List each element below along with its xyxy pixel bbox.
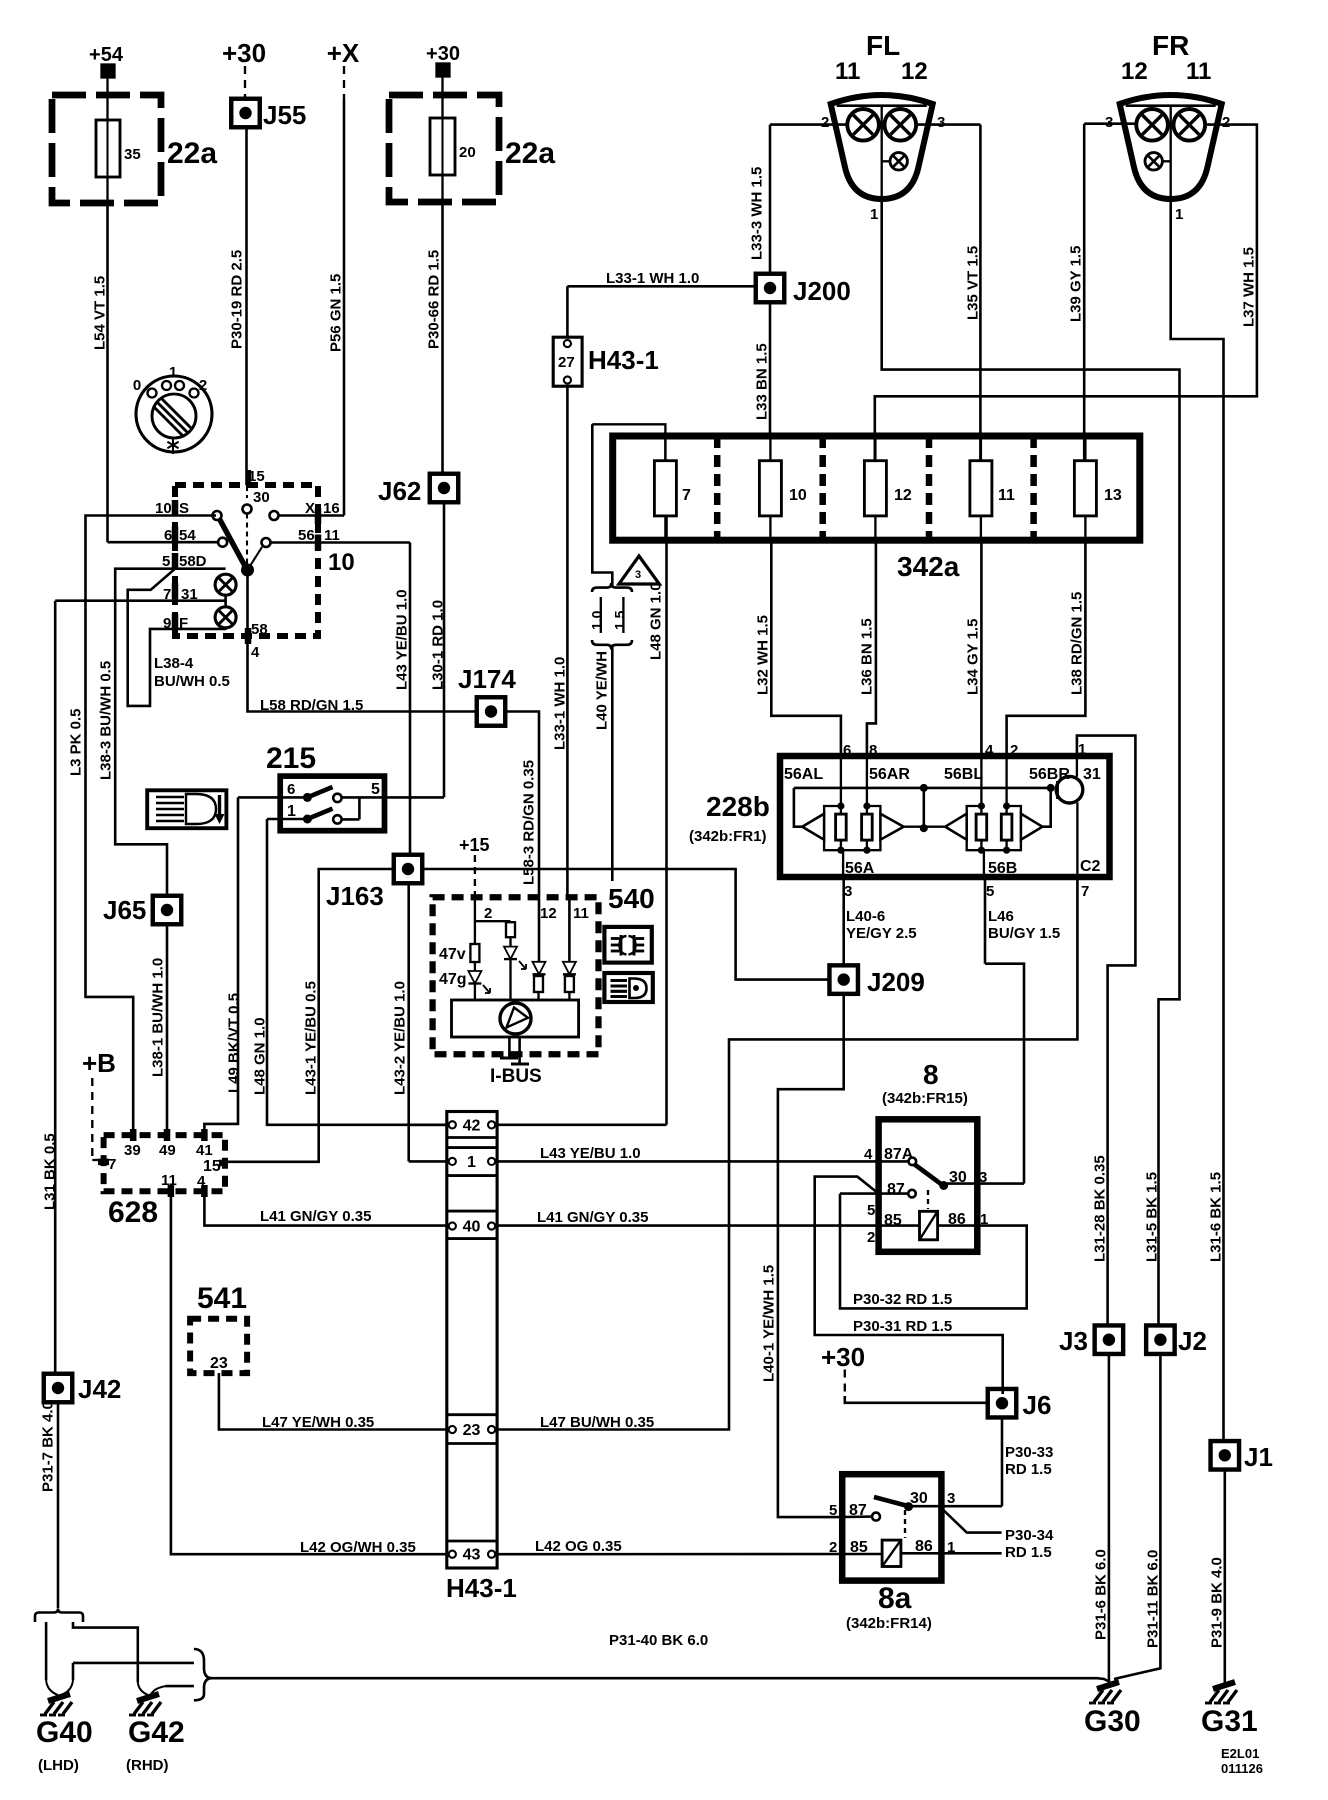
- svg-text:L34 GY 1.5: L34 GY 1.5: [965, 619, 982, 695]
- svg-text:10: 10: [789, 487, 807, 504]
- svg-text:J163: J163: [326, 881, 384, 911]
- svg-text:56AL: 56AL: [784, 766, 823, 783]
- svg-text:1: 1: [1078, 741, 1086, 758]
- svg-text:8a: 8a: [878, 1582, 912, 1615]
- svg-text:1: 1: [467, 1154, 476, 1171]
- svg-text:4: 4: [985, 742, 994, 759]
- svg-text:+B: +B: [82, 1048, 116, 1078]
- svg-text:56AR: 56AR: [869, 766, 910, 783]
- svg-text:8: 8: [923, 1059, 939, 1090]
- svg-text:42: 42: [463, 1117, 481, 1134]
- svg-text:7: 7: [682, 487, 691, 504]
- svg-text:P31-11 BK 6.0: P31-11 BK 6.0: [1145, 1550, 1162, 1648]
- svg-text:G31: G31: [1201, 1705, 1258, 1738]
- svg-text:YE/GY 2.5: YE/GY 2.5: [846, 925, 917, 942]
- svg-text:39: 39: [124, 1142, 141, 1159]
- svg-text:P30-32 RD 1.5: P30-32 RD 1.5: [853, 1291, 952, 1308]
- svg-text:J174: J174: [458, 664, 516, 694]
- svg-text:5: 5: [986, 883, 994, 900]
- svg-text:011126: 011126: [1221, 1761, 1263, 1776]
- svg-text:11: 11: [835, 58, 860, 85]
- svg-text:43: 43: [463, 1547, 481, 1564]
- svg-text:P30-66 RD 1.5: P30-66 RD 1.5: [426, 250, 443, 349]
- svg-text:L54 VT 1.5: L54 VT 1.5: [92, 276, 109, 350]
- svg-text:J6: J6: [1023, 1390, 1052, 1420]
- svg-text:30: 30: [253, 489, 270, 506]
- svg-text:628: 628: [108, 1196, 158, 1229]
- svg-text:L38-4: L38-4: [154, 655, 194, 672]
- svg-text:11: 11: [573, 905, 589, 922]
- svg-text:L43-2 YE/BU 1.0: L43-2 YE/BU 1.0: [392, 981, 409, 1095]
- svg-text:2: 2: [1222, 114, 1230, 131]
- svg-text:L37 WH 1.5: L37 WH 1.5: [1241, 247, 1258, 327]
- svg-text:31: 31: [1083, 766, 1101, 783]
- svg-text:BU/WH 0.5: BU/WH 0.5: [154, 673, 230, 690]
- svg-text:L33 BN 1.5: L33 BN 1.5: [754, 343, 771, 420]
- svg-text:15: 15: [203, 1158, 221, 1175]
- svg-text:11: 11: [1186, 58, 1211, 85]
- svg-text:J2: J2: [1178, 1326, 1207, 1356]
- svg-text:P30-34: P30-34: [1005, 1527, 1054, 1544]
- svg-text:1: 1: [1175, 206, 1183, 223]
- svg-text:J65: J65: [103, 895, 146, 925]
- svg-text:56BL: 56BL: [944, 766, 983, 783]
- svg-text:L40-6: L40-6: [846, 908, 885, 925]
- svg-text:J42: J42: [78, 1374, 121, 1404]
- svg-text:22a: 22a: [505, 137, 555, 170]
- svg-text:(LHD): (LHD): [38, 1757, 79, 1774]
- svg-text:5: 5: [371, 781, 380, 798]
- svg-text:87: 87: [887, 1181, 905, 1198]
- svg-text:2: 2: [199, 377, 207, 394]
- svg-text:1.5: 1.5: [612, 610, 628, 630]
- svg-text:J209: J209: [867, 967, 925, 997]
- svg-text:RD 1.5: RD 1.5: [1005, 1461, 1052, 1478]
- svg-text:12: 12: [1121, 58, 1148, 85]
- svg-text:L42 OG 0.35: L42 OG 0.35: [535, 1538, 622, 1555]
- svg-text:58: 58: [251, 621, 268, 638]
- svg-text:+15: +15: [459, 835, 490, 855]
- svg-text:12: 12: [540, 905, 557, 922]
- svg-text:2: 2: [1010, 742, 1018, 759]
- svg-text:L35 VT 1.5: L35 VT 1.5: [965, 246, 982, 320]
- svg-text:56BR: 56BR: [1029, 766, 1070, 783]
- svg-text:16: 16: [323, 500, 340, 517]
- svg-text:L33-1 WH 1.0: L33-1 WH 1.0: [606, 270, 699, 287]
- svg-text:56A: 56A: [845, 860, 875, 877]
- svg-text:L41 GN/GY 0.35: L41 GN/GY 0.35: [260, 1208, 371, 1225]
- svg-text:L3 PK 0.5: L3 PK 0.5: [68, 708, 85, 776]
- svg-text:+X: +X: [327, 38, 360, 68]
- svg-text:H43-1: H43-1: [446, 1573, 517, 1603]
- svg-text:12: 12: [894, 487, 912, 504]
- svg-text:215: 215: [266, 742, 316, 775]
- svg-text:(RHD): (RHD): [126, 1757, 169, 1774]
- svg-text:L33-1 WH 1.0: L33-1 WH 1.0: [552, 657, 569, 750]
- svg-text:6: 6: [287, 781, 295, 798]
- svg-text:L41 GN/GY 0.35: L41 GN/GY 0.35: [537, 1209, 648, 1226]
- svg-text:41: 41: [196, 1142, 213, 1159]
- svg-text:(342b:FR15): (342b:FR15): [882, 1090, 968, 1107]
- svg-text:+30: +30: [821, 1342, 865, 1372]
- svg-text:L40-1 YE/WH 1.5: L40-1 YE/WH 1.5: [761, 1265, 778, 1382]
- svg-text:L36 BN 1.5: L36 BN 1.5: [859, 618, 876, 695]
- svg-text:4: 4: [251, 644, 260, 661]
- svg-text:P31-6 BK 6.0: P31-6 BK 6.0: [1093, 1549, 1110, 1640]
- svg-text:I-BUS: I-BUS: [490, 1066, 542, 1087]
- svg-text:C2: C2: [1080, 858, 1101, 875]
- svg-text:G42: G42: [128, 1716, 185, 1749]
- svg-text:L38-1 BU/WH 1.0: L38-1 BU/WH 1.0: [150, 958, 167, 1077]
- svg-text:L58-3 RD/GN 0.35: L58-3 RD/GN 0.35: [521, 760, 538, 885]
- svg-text:H43-1: H43-1: [588, 345, 659, 375]
- svg-text:X: X: [305, 500, 315, 517]
- svg-text:P30-33: P30-33: [1005, 1444, 1053, 1461]
- svg-text:(342b:FR1): (342b:FR1): [689, 828, 767, 845]
- svg-text:G40: G40: [36, 1716, 93, 1749]
- svg-text:7: 7: [108, 1156, 116, 1173]
- svg-text:27: 27: [558, 354, 575, 371]
- svg-text:L58 RD/GN 1.5: L58 RD/GN 1.5: [260, 697, 363, 714]
- svg-text:56B: 56B: [988, 860, 1017, 877]
- svg-text:2: 2: [821, 114, 829, 131]
- svg-text:35: 35: [124, 146, 141, 163]
- svg-text:L38-3 BU/WH 0.5: L38-3 BU/WH 0.5: [98, 661, 115, 780]
- svg-text:L31-5 BK 1.5: L31-5 BK 1.5: [1144, 1172, 1161, 1262]
- svg-text:22a: 22a: [167, 137, 217, 170]
- svg-text:P30-31 RD 1.5: P30-31 RD 1.5: [853, 1318, 952, 1335]
- svg-text:J1: J1: [1244, 1442, 1273, 1472]
- svg-text:6: 6: [164, 527, 172, 544]
- svg-text:228b: 228b: [706, 791, 770, 822]
- svg-text:J55: J55: [263, 100, 306, 130]
- svg-text:3: 3: [947, 1490, 955, 1507]
- svg-text:BU/GY 1.5: BU/GY 1.5: [988, 925, 1060, 942]
- svg-text:54: 54: [179, 527, 196, 544]
- svg-text:30: 30: [910, 1490, 928, 1507]
- svg-text:L31 BK 0.5: L31 BK 0.5: [42, 1133, 59, 1210]
- svg-text:L33-3 WH 1.5: L33-3 WH 1.5: [749, 167, 766, 260]
- svg-text:10: 10: [328, 549, 355, 576]
- svg-text:5: 5: [867, 1202, 875, 1219]
- svg-text:RD 1.5: RD 1.5: [1005, 1544, 1052, 1561]
- svg-text:342a: 342a: [897, 551, 960, 582]
- svg-text:P56 GN 1.5: P56 GN 1.5: [328, 274, 345, 352]
- svg-text:12: 12: [901, 58, 928, 85]
- svg-text:540: 540: [608, 883, 655, 914]
- svg-text:23: 23: [463, 1422, 481, 1439]
- svg-text:3: 3: [937, 114, 945, 131]
- svg-text:541: 541: [197, 1282, 247, 1315]
- svg-text:L43-1 YE/BU 0.5: L43-1 YE/BU 0.5: [303, 981, 320, 1095]
- svg-text:0: 0: [133, 377, 141, 394]
- svg-text:1.0: 1.0: [589, 610, 605, 630]
- svg-text:8: 8: [869, 742, 877, 759]
- svg-text:FL: FL: [866, 30, 900, 61]
- svg-text:L40 YE/WH: L40 YE/WH: [594, 651, 611, 730]
- svg-text:L43 YE/BU 1.0: L43 YE/BU 1.0: [394, 589, 411, 690]
- svg-text:40: 40: [463, 1219, 481, 1236]
- svg-text:L39 GY 1.5: L39 GY 1.5: [1068, 246, 1085, 322]
- svg-text:47v: 47v: [439, 946, 466, 963]
- svg-text:G30: G30: [1084, 1705, 1141, 1738]
- svg-text:5: 5: [829, 1502, 837, 1519]
- svg-text:2: 2: [867, 1229, 875, 1246]
- svg-text:7: 7: [1081, 883, 1089, 900]
- svg-text:49: 49: [159, 1142, 176, 1159]
- svg-text:L38 RD/GN 1.5: L38 RD/GN 1.5: [1069, 592, 1086, 695]
- svg-text:47g: 47g: [439, 971, 467, 988]
- svg-text:J62: J62: [378, 476, 421, 506]
- svg-text:3: 3: [844, 883, 852, 900]
- svg-text:L31-6 BK 1.5: L31-6 BK 1.5: [1208, 1172, 1225, 1262]
- svg-text:L42 OG/WH 0.35: L42 OG/WH 0.35: [300, 1539, 416, 1556]
- svg-text:20: 20: [459, 144, 476, 161]
- svg-text:(342b:FR14): (342b:FR14): [846, 1615, 932, 1632]
- svg-text:2: 2: [484, 905, 492, 922]
- svg-text:L30-1 RD 1.0: L30-1 RD 1.0: [430, 600, 447, 690]
- svg-text:L46: L46: [988, 908, 1014, 925]
- svg-text:6: 6: [843, 742, 851, 759]
- svg-text:L43 YE/BU 1.0: L43 YE/BU 1.0: [540, 1145, 641, 1162]
- svg-text:L32 WH 1.5: L32 WH 1.5: [755, 615, 772, 695]
- svg-text:23: 23: [210, 1355, 228, 1372]
- svg-text:J3: J3: [1059, 1326, 1088, 1356]
- svg-text:P31-7 BK 4.0: P31-7 BK 4.0: [40, 1401, 57, 1492]
- svg-text:L48 GN 1.0: L48 GN 1.0: [252, 1017, 269, 1095]
- svg-text:1: 1: [287, 803, 296, 820]
- svg-text:L48 GN 1.0: L48 GN 1.0: [648, 582, 665, 660]
- svg-text:11: 11: [998, 487, 1015, 504]
- svg-text:+54: +54: [89, 44, 124, 66]
- svg-text:P31-9 BK 4.0: P31-9 BK 4.0: [1209, 1557, 1226, 1648]
- svg-text:L49 BK/VT 0.5: L49 BK/VT 0.5: [226, 993, 243, 1093]
- svg-text:1: 1: [870, 206, 878, 223]
- svg-text:+30: +30: [222, 38, 266, 68]
- svg-text:FR: FR: [1152, 30, 1189, 61]
- svg-text:P31-40 BK 6.0: P31-40 BK 6.0: [609, 1632, 708, 1649]
- svg-text:L47 BU/WH 0.35: L47 BU/WH 0.35: [540, 1414, 654, 1431]
- svg-text:L31-28 BK 0.35: L31-28 BK 0.35: [1092, 1155, 1109, 1262]
- svg-text:J200: J200: [793, 276, 851, 306]
- svg-text:P30-19 RD 2.5: P30-19 RD 2.5: [229, 250, 246, 349]
- svg-text:+30: +30: [426, 43, 460, 65]
- svg-text:L47 YE/WH 0.35: L47 YE/WH 0.35: [262, 1414, 374, 1431]
- svg-text:E2L01: E2L01: [1221, 1746, 1259, 1761]
- svg-text:1: 1: [169, 364, 177, 381]
- svg-text:3: 3: [635, 569, 641, 581]
- svg-text:13: 13: [1104, 487, 1122, 504]
